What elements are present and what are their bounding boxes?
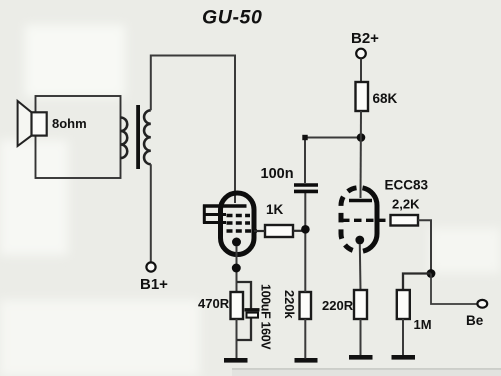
transformer T1 primary coil xyxy=(144,110,151,164)
wire B2+ lead xyxy=(360,59,362,83)
label 68K xyxy=(373,91,398,106)
label 220R xyxy=(322,298,354,313)
wire 1M bottom lead xyxy=(402,319,404,355)
svg-text:220k: 220k xyxy=(282,290,297,319)
tube GU-50 envelope xyxy=(221,193,255,255)
svg-text:470R: 470R xyxy=(198,296,230,311)
label ECC83 xyxy=(385,178,429,193)
label 1M xyxy=(414,317,432,332)
svg-text:8ohm: 8ohm xyxy=(52,116,87,131)
wire 68K to ECC83 plate xyxy=(360,111,363,198)
label 1K xyxy=(266,202,284,217)
label B1+ xyxy=(140,276,168,293)
wire to 1M xyxy=(403,274,431,291)
resistor 1M xyxy=(397,290,410,319)
ground under 220R xyxy=(349,355,373,360)
label Be xyxy=(466,313,484,328)
svg-text:220R: 220R xyxy=(322,298,354,313)
GU-50 plate and screen tie bar xyxy=(203,204,247,208)
junction plate node xyxy=(357,133,366,142)
wire coupling node vertical xyxy=(304,193,306,292)
label 100n xyxy=(261,166,294,182)
GU-50 grid tie bracket xyxy=(203,205,226,224)
ECC83 cathode xyxy=(355,236,364,245)
wire speaker box xyxy=(36,96,121,178)
svg-text:1M: 1M xyxy=(414,317,432,332)
svg-text:B2+: B2+ xyxy=(351,30,379,47)
svg-text:B1+: B1+ xyxy=(140,276,168,293)
resistor 470R xyxy=(231,292,244,319)
svg-text:100uF 160V: 100uF 160V xyxy=(259,284,273,350)
svg-text:68K: 68K xyxy=(373,91,398,106)
wire 470R bottom lead xyxy=(236,319,238,358)
speaker LS1 xyxy=(18,101,47,146)
ground under 1M xyxy=(392,355,416,360)
resistor 220k xyxy=(300,292,312,319)
terminal B1+ xyxy=(146,262,155,271)
ECC83 plate xyxy=(349,199,372,202)
svg-text:100n: 100n xyxy=(261,166,294,182)
capacitor 100uF 160V xyxy=(245,310,260,318)
ECC83 grid dashed xyxy=(342,219,390,222)
wire top loop to plate xyxy=(151,56,235,204)
transformer T1 secondary coil xyxy=(121,118,128,159)
label 100uF 160V xyxy=(259,284,273,350)
ground under 470R xyxy=(224,358,248,363)
svg-text:ECC83: ECC83 xyxy=(385,178,429,193)
svg-text:1K: 1K xyxy=(266,202,284,217)
ground under 220k xyxy=(295,358,318,363)
junction square at cap corner xyxy=(302,135,307,140)
wire to Be terminal xyxy=(431,274,477,305)
label B2+ xyxy=(351,30,379,47)
terminal Be xyxy=(477,300,487,308)
wire cap top to plate node xyxy=(305,138,361,184)
GU-50 grids dashed xyxy=(227,216,258,232)
capacitor C1 100n xyxy=(294,185,318,191)
wire ECC83 cathode lead xyxy=(359,244,362,290)
wire 100uF branch xyxy=(237,282,251,340)
tube ECC83 envelope dashed xyxy=(341,188,377,252)
wire primary to B1+ xyxy=(150,164,152,262)
label 8ohm xyxy=(52,116,87,131)
svg-text:GU-50: GU-50 xyxy=(202,7,262,29)
wire cathode lead xyxy=(236,246,238,292)
transformer core xyxy=(136,105,140,169)
wire 1K leads xyxy=(254,230,306,232)
GU-50 cathode xyxy=(232,238,241,247)
wire 220R bottom lead xyxy=(360,319,362,355)
title GU-50 xyxy=(202,7,262,29)
label 220k xyxy=(282,290,297,319)
svg-text:Be: Be xyxy=(466,313,484,328)
wire 220k bottom lead xyxy=(304,319,306,359)
wire 2.2K right lead down xyxy=(418,220,431,273)
resistor 1K xyxy=(265,225,293,237)
junction output node xyxy=(427,269,436,278)
resistor 220R xyxy=(354,290,367,319)
label 2,2K xyxy=(392,197,420,212)
svg-text:2,2K: 2,2K xyxy=(392,197,420,212)
junction cathode node xyxy=(232,264,241,273)
terminal B2+ xyxy=(356,49,366,59)
resistor 2.2K xyxy=(391,215,419,226)
label 470R xyxy=(198,296,230,311)
resistor 68K xyxy=(356,82,369,111)
junction grid node xyxy=(301,225,310,234)
